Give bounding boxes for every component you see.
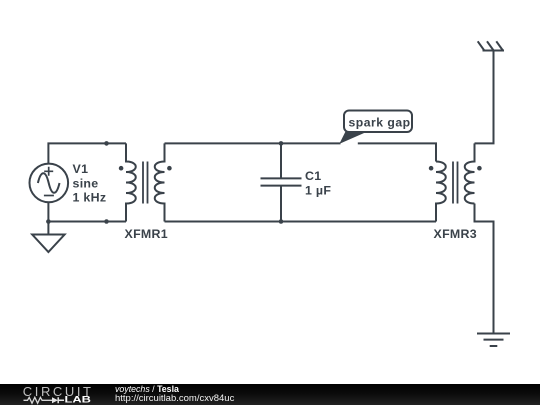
svg-text:1 kHz: 1 kHz [73,191,107,205]
node top-left junction dot [104,141,109,146]
footer url text [115,394,234,404]
wire V1 top to XFMR1 [48,143,126,163]
transformer XFMR1 [119,143,172,221]
transformer XFMR3 [429,143,482,221]
wire V1 bottom [48,202,126,222]
ground (earth, bottom right) [477,334,510,347]
svg-text:spark gap: spark gap [349,116,411,130]
svg-text:sine: sine [73,176,99,190]
node C1 bottom junction dot [279,219,284,224]
footer credit text [115,385,179,394]
wire XFMR3 right bottom to earth [475,204,494,334]
ground (signal ground under V1) [32,222,64,253]
node V1-ground junction dot [46,219,51,224]
svg-text:C1: C1 [305,169,321,183]
capacitor C1 [261,143,302,221]
svg-text:LAB: LAB [65,395,92,405]
svg-text:XFMR3: XFMR3 [434,227,478,241]
CircuitLab logo [0,384,110,405]
spark gap callout balloon [339,111,412,144]
node bottom-left junction dot [104,219,109,224]
wire spark gap to XFMR3 (top) [358,143,436,161]
wire bottom rail XFMR1 to XFMR3 [165,221,437,223]
wire XFMR3 left bottom to rail [435,204,437,222]
svg-text:V1: V1 [73,162,89,176]
voltage source V1 [30,164,69,203]
svg-text:1 µF: 1 µF [305,183,331,197]
wire XFMR1 to spark gap (top) [165,142,341,144]
ground (chassis, top right) [478,41,504,50]
node C1 top junction dot [279,141,284,146]
wire XFMR3 right top to antenna [475,51,494,144]
svg-text:XFMR1: XFMR1 [125,227,169,241]
